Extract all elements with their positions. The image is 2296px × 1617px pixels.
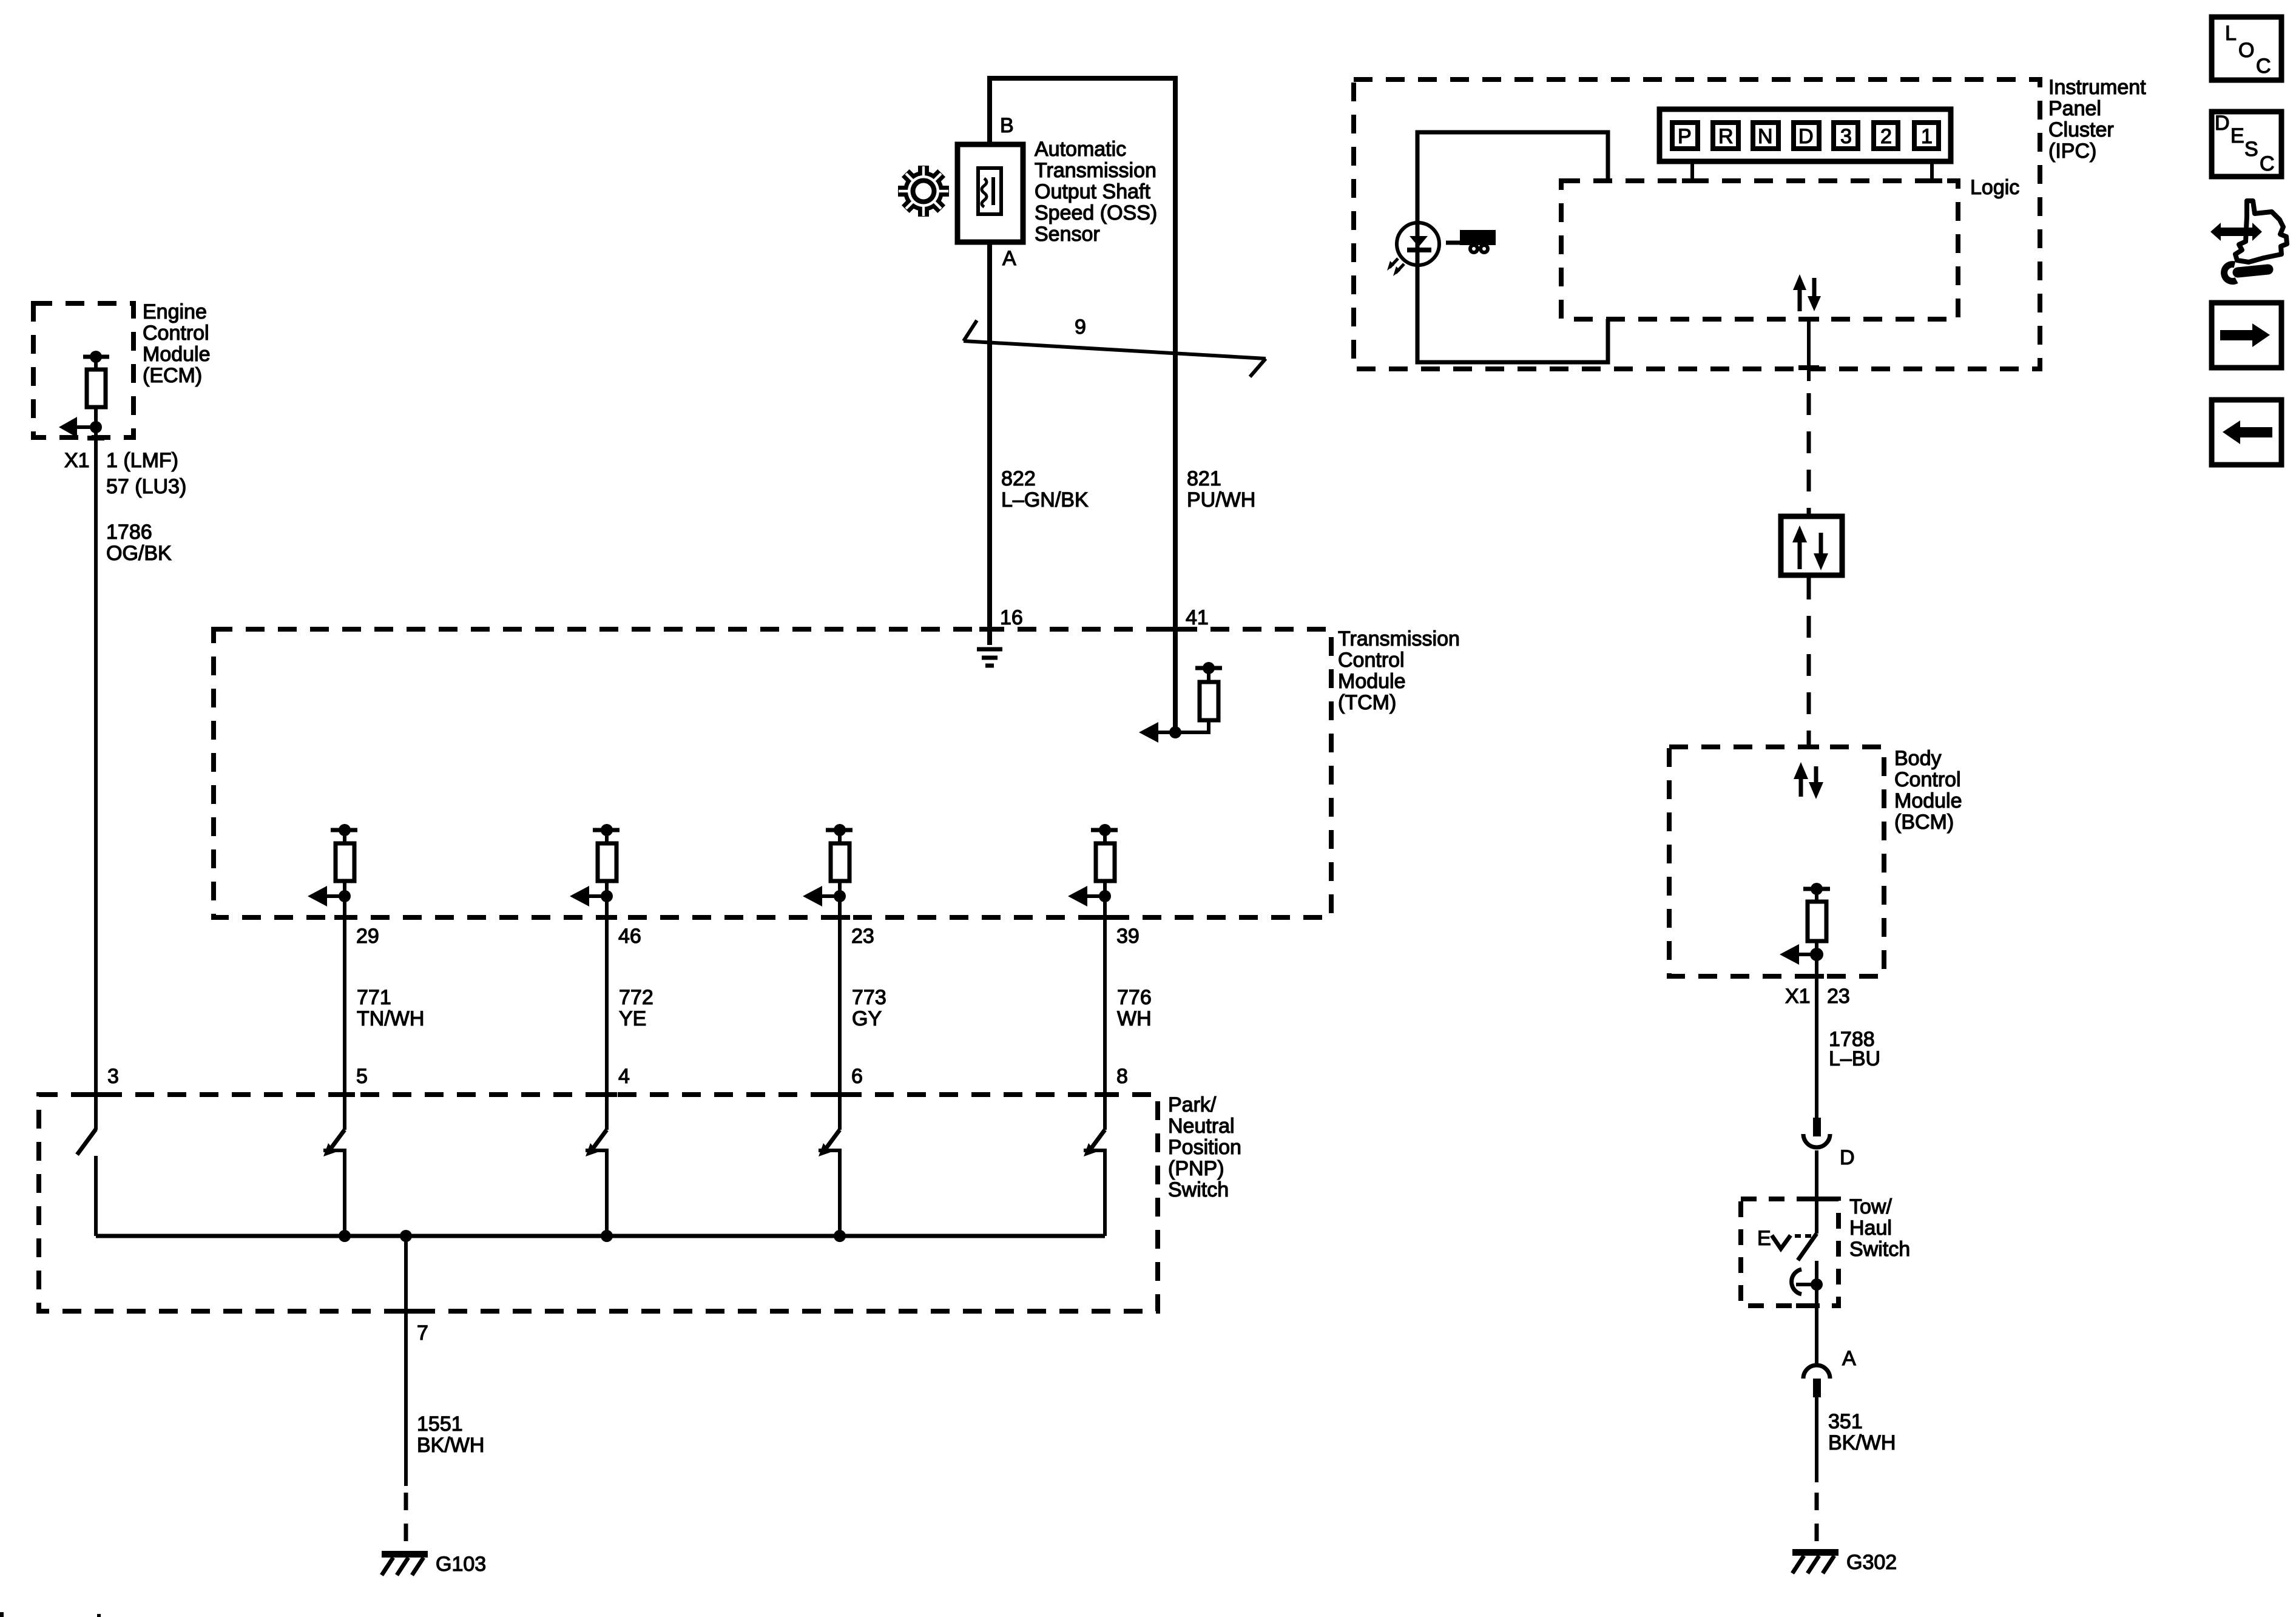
label Engine Control Module (ECM) bbox=[143, 300, 211, 387]
svg-text:G302: G302 bbox=[1846, 1551, 1897, 1574]
svg-text:Engine: Engine bbox=[143, 300, 207, 323]
svg-text:7: 7 bbox=[417, 1322, 428, 1345]
wire serial data to BCM bbox=[1807, 578, 1811, 747]
label Park/ Neutral Position (PNP) Switch bbox=[1168, 1093, 1241, 1201]
border ticks at wire crossings TCM bbox=[334, 627, 1186, 920]
svg-text:1: 1 bbox=[1921, 125, 1933, 148]
svg-text:L: L bbox=[2225, 22, 2237, 45]
wire 351 BK/WH bbox=[1815, 1397, 1818, 1549]
svg-text:Tow/: Tow/ bbox=[1849, 1195, 1892, 1218]
svg-text:Position: Position bbox=[1168, 1136, 1241, 1159]
segment box D bbox=[1794, 123, 1819, 149]
svg-text:9: 9 bbox=[1075, 316, 1086, 339]
svg-text:822: 822 bbox=[1001, 467, 1036, 490]
svg-text:3: 3 bbox=[1840, 125, 1852, 148]
PRNDL driver solid box bbox=[1417, 132, 1608, 362]
svg-text:Park/: Park/ bbox=[1168, 1093, 1217, 1116]
display stem left bbox=[1690, 164, 1694, 181]
svg-text:Cluster: Cluster bbox=[2048, 118, 2114, 141]
svg-text:4: 4 bbox=[618, 1065, 630, 1088]
resistor (BCM internal pull-up) bbox=[1803, 883, 1830, 954]
icon box left arrow bbox=[2212, 400, 2281, 465]
svg-text:C: C bbox=[2260, 152, 2275, 175]
svg-text:D: D bbox=[1798, 125, 1814, 148]
svg-text:YE: YE bbox=[619, 1007, 646, 1030]
svg-text:B: B bbox=[1000, 114, 1014, 137]
svg-text:771: 771 bbox=[357, 986, 391, 1009]
junction dots on bus bbox=[339, 1230, 846, 1242]
svg-text:Switch: Switch bbox=[1168, 1178, 1229, 1201]
Body Control Module (BCM) dashed box bbox=[1669, 747, 1884, 976]
svg-text:L–BU: L–BU bbox=[1829, 1047, 1880, 1070]
svg-text:PU/WH: PU/WH bbox=[1187, 488, 1255, 511]
svg-text:Module: Module bbox=[143, 343, 211, 366]
svg-text:776: 776 bbox=[1117, 986, 1152, 1009]
svg-text:(BCM): (BCM) bbox=[1894, 811, 1954, 834]
svg-text:Automatic: Automatic bbox=[1035, 138, 1126, 161]
label Body Control Module (BCM) bbox=[1894, 747, 1962, 834]
page artifact dot bbox=[0, 1612, 4, 1617]
svg-text:(PNP): (PNP) bbox=[1168, 1157, 1224, 1180]
wire 1551 BK/WH (pin 7 to G103) bbox=[404, 1236, 408, 1551]
node junction wire 41 end with arrow bbox=[1139, 722, 1181, 743]
ground G302 bbox=[1792, 1549, 1838, 1573]
segment box P bbox=[1672, 123, 1698, 149]
svg-text:Sensor: Sensor bbox=[1035, 223, 1100, 246]
resistor (TCM output 29) bbox=[308, 824, 357, 906]
svg-text:39: 39 bbox=[1116, 925, 1140, 948]
momentary return spring hook bbox=[1792, 1269, 1823, 1294]
svg-text:5: 5 bbox=[356, 1065, 368, 1088]
icon box right arrow bbox=[2212, 303, 2281, 368]
border ticks tow/haul bbox=[1796, 1197, 1827, 1308]
svg-text:351: 351 bbox=[1828, 1410, 1863, 1433]
svg-text:(ECM): (ECM) bbox=[143, 364, 202, 387]
Instrument Panel Cluster (IPC) dashed box bbox=[1354, 79, 2040, 369]
svg-text:X1: X1 bbox=[64, 449, 90, 472]
svg-text:Output Shaft: Output Shaft bbox=[1035, 180, 1150, 203]
svg-text:Control: Control bbox=[1894, 768, 1961, 791]
switch blade (pin 4) bbox=[586, 1130, 609, 1236]
border ticks at wire crossings PNP bbox=[86, 1092, 1115, 1314]
wire 773 GY bbox=[838, 896, 842, 1130]
momentary switch actuator label E bbox=[1757, 1227, 1811, 1250]
svg-text:16: 16 bbox=[1000, 606, 1023, 629]
svg-text:E: E bbox=[2230, 124, 2244, 147]
wire 772 YE bbox=[605, 896, 609, 1130]
svg-text:S: S bbox=[2244, 138, 2258, 161]
node junction BCM output with arrow bbox=[1780, 944, 1823, 965]
wire 1788 L-BU bbox=[1815, 954, 1818, 1118]
switch blade (pin 3) bbox=[77, 1129, 96, 1236]
svg-text:1 (LMF): 1 (LMF) bbox=[106, 449, 178, 472]
label Transmission Control Module (TCM) bbox=[1338, 627, 1460, 714]
svg-text:773: 773 bbox=[852, 986, 886, 1009]
in-line connector A bbox=[1803, 1365, 1830, 1397]
wire connector D to Tow/Haul bbox=[1815, 1150, 1818, 1234]
svg-text:A: A bbox=[1002, 247, 1016, 270]
up/down arrows (BCM) bbox=[1794, 762, 1823, 799]
wire IPC Logic to BCM bbox=[1798, 319, 1819, 514]
svg-text:G103: G103 bbox=[436, 1553, 486, 1576]
wire tow/haul to connector A bbox=[1815, 1284, 1818, 1364]
border tick BCM top / bottom bbox=[1798, 744, 1824, 979]
svg-text:Transmission: Transmission bbox=[1035, 159, 1156, 182]
svg-text:BK/WH: BK/WH bbox=[417, 1434, 484, 1457]
svg-text:Module: Module bbox=[1894, 789, 1962, 812]
up/down arrows (Logic) bbox=[1793, 274, 1821, 311]
common bus wire bbox=[96, 1234, 1105, 1238]
switch blade (pin 6) bbox=[819, 1130, 842, 1236]
svg-text:Speed (OSS): Speed (OSS) bbox=[1035, 201, 1157, 224]
in-line connector D bbox=[1803, 1118, 1830, 1147]
twisted pair crossing symbol 9 bbox=[964, 320, 1266, 377]
svg-text:(TCM): (TCM) bbox=[1338, 691, 1396, 714]
icon box LOC bbox=[2212, 17, 2281, 80]
svg-text:D: D bbox=[2215, 112, 2230, 135]
svg-text:Module: Module bbox=[1338, 670, 1406, 693]
svg-text:23: 23 bbox=[851, 925, 874, 948]
svg-text:23: 23 bbox=[1827, 985, 1850, 1008]
svg-text:Transmission: Transmission bbox=[1338, 627, 1460, 650]
display stem right bbox=[1930, 164, 1934, 181]
svg-text:P: P bbox=[1678, 125, 1692, 148]
svg-text:N: N bbox=[1758, 125, 1773, 148]
svg-text:L–GN/BK: L–GN/BK bbox=[1001, 488, 1089, 511]
switch blade (pin 8) bbox=[1084, 1130, 1107, 1236]
Park/Neutral Position (PNP) Switch dashed box bbox=[39, 1095, 1158, 1311]
node junction at ECM output bbox=[59, 417, 102, 437]
resistor (TCM output 23) bbox=[803, 824, 853, 906]
svg-text:3: 3 bbox=[107, 1065, 119, 1088]
segment box 3 bbox=[1834, 123, 1858, 149]
svg-text:46: 46 bbox=[618, 925, 641, 948]
icon box DESC bbox=[2212, 112, 2281, 177]
resistor (TCM output 46) bbox=[570, 824, 620, 906]
svg-text:821: 821 bbox=[1187, 467, 1221, 490]
Tow/Haul Switch dashed box bbox=[1741, 1199, 1838, 1306]
svg-text:GY: GY bbox=[852, 1007, 882, 1030]
svg-text:(IPC): (IPC) bbox=[2048, 140, 2096, 163]
LED indicator bbox=[1387, 223, 1439, 276]
svg-text:WH: WH bbox=[1117, 1007, 1152, 1030]
svg-text:29: 29 bbox=[356, 925, 379, 948]
trailer icon bbox=[1446, 230, 1496, 254]
Logic dashed box bbox=[1561, 181, 1958, 319]
ground G103 bbox=[382, 1551, 428, 1575]
resistor (ECM internal, signal source) bbox=[83, 351, 109, 427]
svg-text:C: C bbox=[2256, 55, 2271, 78]
svg-text:Logic: Logic bbox=[1970, 176, 2019, 199]
svg-text:1786: 1786 bbox=[106, 521, 152, 544]
svg-text:R: R bbox=[1718, 125, 1734, 148]
PRNDL display assembly bbox=[1660, 109, 1951, 161]
switch blade (pin 5) bbox=[323, 1130, 346, 1236]
svg-text:A: A bbox=[1842, 1347, 1856, 1370]
svg-text:BK/WH: BK/WH bbox=[1828, 1431, 1896, 1454]
svg-text:E: E bbox=[1757, 1227, 1771, 1250]
svg-text:Instrument: Instrument bbox=[2048, 76, 2146, 99]
segment box R bbox=[1713, 123, 1738, 149]
svg-text:Switch: Switch bbox=[1849, 1238, 1910, 1261]
wire 776 WH bbox=[1103, 896, 1107, 1130]
ground (TCM internal, wire 16 termination) bbox=[977, 649, 1002, 666]
svg-text:41: 41 bbox=[1186, 606, 1209, 629]
serial data symbol box bbox=[1781, 516, 1842, 575]
svg-text:Neutral: Neutral bbox=[1168, 1115, 1235, 1138]
segment box 1 bbox=[1914, 123, 1939, 149]
svg-text:2: 2 bbox=[1880, 125, 1892, 148]
svg-text:D: D bbox=[1840, 1146, 1855, 1169]
svg-text:TN/WH: TN/WH bbox=[357, 1007, 424, 1030]
svg-text:Control: Control bbox=[1338, 649, 1405, 672]
border ticks at Logic crossings bbox=[1682, 178, 1942, 322]
label Tow/ Haul Switch bbox=[1849, 1195, 1910, 1261]
svg-text:1551: 1551 bbox=[417, 1413, 463, 1436]
svg-text:772: 772 bbox=[619, 986, 653, 1009]
switch blade (tow/haul) bbox=[1798, 1234, 1817, 1284]
OSS sensor body box bbox=[957, 144, 1023, 242]
svg-text:Body: Body bbox=[1894, 747, 1942, 770]
svg-text:8: 8 bbox=[1116, 1065, 1128, 1088]
resistor (TCM internal, wire 41 pull-up) bbox=[1175, 662, 1222, 734]
label Instrument Panel Cluster (IPC) bbox=[2048, 76, 2146, 163]
Transmission Control Module (TCM) dashed box bbox=[214, 629, 1331, 917]
svg-text:Control: Control bbox=[143, 322, 209, 345]
segment box N bbox=[1753, 123, 1778, 149]
wire 771 TN/WH bbox=[343, 896, 346, 1130]
segment box 2 bbox=[1874, 123, 1898, 149]
svg-text:O: O bbox=[2238, 39, 2254, 62]
svg-text:Haul: Haul bbox=[1849, 1217, 1892, 1240]
gear icon bbox=[888, 155, 960, 228]
svg-text:OG/BK: OG/BK bbox=[106, 542, 172, 565]
OSS sensor outline top bbox=[990, 78, 1175, 732]
svg-text:Panel: Panel bbox=[2048, 97, 2101, 120]
Engine Control Module (ECM) dashed box bbox=[33, 303, 133, 437]
label Automatic Transmission Output Shaft Speed (OSS) Sensor bbox=[1035, 138, 1157, 246]
wire 1786 OG/BK from ECM to PNP switch bbox=[87, 427, 104, 1130]
svg-text:X1: X1 bbox=[1785, 985, 1811, 1008]
icon hand with double arrow and wrench bbox=[2210, 201, 2287, 282]
page artifact dot 2 bbox=[97, 1614, 101, 1617]
OSS sensing element bbox=[978, 168, 1001, 214]
resistor (TCM output 39) bbox=[1068, 824, 1118, 906]
svg-text:57 (LU3): 57 (LU3) bbox=[106, 475, 186, 498]
svg-text:6: 6 bbox=[851, 1065, 863, 1088]
